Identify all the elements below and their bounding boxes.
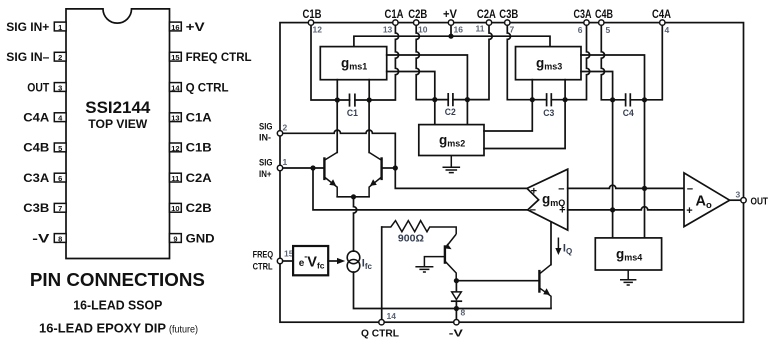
- pin name GND: [186, 231, 215, 245]
- node C1 right dot: [367, 97, 372, 102]
- label C2A: [477, 9, 496, 21]
- node Q3 emitter junction dot: [454, 278, 459, 283]
- capacitor C2: [435, 94, 468, 118]
- wire SIG IN+ to left base: [280, 167, 324, 169]
- wire gms3 bottom stub right: [564, 80, 566, 100]
- +V terminal drop wire: [450, 25, 452, 36]
- svg-text:C2B: C2B: [408, 9, 427, 21]
- svg-text:16: 16: [454, 25, 464, 35]
- svg-text:SIG IN+: SIG IN+: [6, 20, 49, 34]
- pin 6 box: [54, 173, 66, 183]
- pin 15 box: [170, 52, 182, 62]
- svg-text:C1B: C1B: [186, 141, 212, 155]
- wire differential pair tail: [337, 196, 369, 198]
- wire gms3 stub2 to C4 left and down to gms4: [581, 72, 613, 238]
- wire C1 right plate down to Q2 collector: [368, 100, 370, 152]
- svg-text:+V: +V: [186, 20, 205, 34]
- transistor Q2 right of differential pair: [369, 152, 382, 196]
- caption 16-LEAD EPOXY DIP (future): [39, 321, 198, 336]
- pin name SIG IN+: [6, 20, 49, 34]
- wire tail down to current source with hop: [354, 197, 357, 251]
- svg-text:FREQ CTRL: FREQ CTRL: [186, 50, 252, 64]
- svg-text:−: −: [687, 183, 693, 195]
- svg-text:6: 6: [578, 25, 583, 35]
- svg-text:CTRL: CTRL: [253, 262, 273, 273]
- svg-text:SIG: SIG: [259, 158, 273, 169]
- label FREQ CTRL: [253, 249, 274, 272]
- svg-text:16-LEAD SSOP: 16-LEAD SSOP: [73, 298, 162, 313]
- svg-text:PIN CONNECTIONS: PIN CONNECTIONS: [30, 270, 205, 290]
- svg-text:5: 5: [58, 144, 62, 153]
- pin name C3B: [23, 201, 49, 215]
- label C2B: [408, 9, 427, 21]
- node C3 right dot: [563, 97, 568, 102]
- pin name SIG IN-: [6, 50, 49, 64]
- pin name OUT: [27, 80, 50, 94]
- wire Q3 to Q4 base: [456, 280, 538, 282]
- node C4 right dot: [642, 97, 647, 102]
- wire gms1 bottom stub left: [336, 80, 338, 100]
- junction dot +V rail: [448, 34, 453, 39]
- label -V: [449, 329, 463, 340]
- pin 16 box: [170, 22, 182, 32]
- svg-text:7: 7: [510, 25, 515, 35]
- op-amp block gms4: [595, 238, 661, 270]
- wire Q4 emitter to -V node: [456, 308, 551, 310]
- pin 13 box: [170, 113, 182, 123]
- pin 4 box: [54, 113, 66, 123]
- op-amp Ao: [684, 173, 730, 227]
- terminal OUT pin 3: [736, 189, 747, 203]
- svg-text:C3A: C3A: [23, 171, 49, 185]
- wire C2A drop with hop: [467, 25, 492, 99]
- wire C1B to C1 left plate: [311, 25, 337, 100]
- svg-text:C3B: C3B: [23, 201, 49, 215]
- svg-text:+: +: [559, 205, 565, 217]
- wire SIG IN+ branch to gmQ bottom input: [313, 168, 528, 210]
- caption 16-LEAD SSOP: [73, 298, 162, 313]
- wire gmQ bottom output to Ao with hop: [568, 207, 684, 210]
- svg-text:1: 1: [283, 157, 288, 167]
- terminal C4A pin 4: [660, 20, 670, 35]
- svg-text:8: 8: [461, 308, 466, 318]
- svg-text:C2A: C2A: [186, 171, 212, 185]
- transistor Q4 (NPN IQ): [539, 265, 551, 309]
- terminal C3B pin 7: [505, 20, 515, 35]
- pin name C1A: [186, 111, 212, 125]
- svg-text:OUT: OUT: [27, 80, 50, 94]
- label C4A: [652, 9, 671, 21]
- svg-text:SIG: SIG: [259, 122, 273, 133]
- wire Q3 base to ground: [415, 257, 445, 272]
- label C3A: [574, 9, 592, 21]
- svg-text:C4B: C4B: [23, 141, 49, 155]
- svg-text:1: 1: [58, 23, 62, 32]
- pin 3 box: [54, 83, 66, 93]
- svg-text:5: 5: [606, 25, 611, 35]
- terminal C1A pin 13: [383, 20, 398, 35]
- IC label SSI2144: [85, 99, 151, 131]
- resistor R1 900 ohm: [382, 221, 457, 245]
- transistor Q3 (PNP near 900 ohm): [445, 234, 457, 281]
- svg-text:16: 16: [171, 23, 179, 32]
- terminal C1B pin 12: [308, 20, 322, 35]
- svg-text:FREQ: FREQ: [253, 249, 274, 260]
- svg-text:C4B: C4B: [595, 9, 613, 21]
- wire Q2 base to SIG IN- vertical: [382, 167, 396, 169]
- current source Ifc: [347, 251, 372, 272]
- pin 7 box: [54, 203, 66, 213]
- pin 8 box: [54, 234, 66, 244]
- svg-text:2: 2: [58, 53, 62, 62]
- wire gms3 stub1 to C4 right and down to gms4: [581, 55, 645, 238]
- transistor Q1 left of differential pair: [324, 152, 337, 196]
- terminal C2B pin 10: [414, 20, 428, 35]
- label C1A: [385, 9, 404, 21]
- chip outline border: [280, 23, 744, 323]
- svg-text:Q CTRL: Q CTRL: [361, 329, 399, 340]
- svg-text:11: 11: [171, 174, 179, 183]
- svg-text:GND: GND: [186, 231, 215, 245]
- pin name -V: [32, 231, 49, 245]
- arrow e-Vfc to current source: [328, 258, 345, 264]
- wire gms1 output stub 2 to C2 left: [387, 72, 435, 125]
- pin 10 box: [170, 203, 182, 213]
- pin 9 box: [170, 234, 182, 244]
- terminal Q CTRL pin 14: [379, 311, 396, 325]
- svg-text:3: 3: [736, 189, 741, 199]
- svg-text:10: 10: [418, 25, 428, 35]
- svg-text:OUT: OUT: [751, 196, 769, 208]
- node SIG IN+ base dot: [310, 165, 315, 170]
- pin 5 box: [54, 143, 66, 153]
- terminal C4B pin 5: [599, 20, 611, 35]
- wire gms2 right stub upper to C3 left: [484, 100, 532, 131]
- pin 12 box: [170, 143, 182, 153]
- ground below gms2: [443, 156, 461, 173]
- svg-text:C4A: C4A: [23, 111, 49, 125]
- terminal C3A pin 6: [578, 20, 589, 35]
- caption PIN CONNECTIONS: [30, 270, 205, 290]
- +V rail wire from gms1 top to gms3 top: [354, 36, 550, 46]
- svg-text:13: 13: [383, 25, 393, 35]
- svg-text:−: −: [530, 204, 536, 216]
- svg-text:2: 2: [283, 123, 288, 133]
- svg-text:7: 7: [58, 204, 62, 213]
- svg-text:+: +: [686, 205, 692, 217]
- svg-text:12: 12: [313, 25, 323, 35]
- op-amp block gms1: [320, 47, 386, 80]
- label SIG IN-: [259, 122, 273, 144]
- svg-text:C1B: C1B: [303, 9, 322, 21]
- IC body U1 SSI2144 with notch: [66, 9, 170, 259]
- wire C4B drop with hops: [601, 25, 612, 100]
- pin 1 box: [54, 22, 66, 32]
- svg-text:14: 14: [387, 311, 397, 321]
- node dot bottom line x 612.6: [610, 207, 615, 212]
- terminal SIG IN- pin 2: [277, 123, 287, 137]
- node C2 right dot: [465, 97, 470, 102]
- wire C1 left plate down to Q1 collector: [336, 100, 338, 152]
- svg-text:TOP VIEW: TOP VIEW: [88, 117, 148, 131]
- svg-text:(future): (future): [169, 324, 198, 336]
- arrow IQ: [555, 238, 572, 256]
- svg-text:12: 12: [171, 144, 179, 153]
- pin name C1B: [186, 141, 212, 155]
- svg-text:8: 8: [58, 234, 62, 243]
- op-amp block gms2: [419, 125, 484, 156]
- svg-text:+: +: [531, 186, 537, 198]
- op-amp block gms3: [516, 47, 582, 80]
- wire gms1 bottom stub right: [368, 80, 370, 100]
- node diode bottom dot: [454, 306, 459, 311]
- wire gms2 right stub lower to C3 right: [484, 100, 565, 149]
- pin 2 box: [54, 52, 66, 62]
- pin name C3A: [23, 171, 49, 185]
- diode D1: [452, 281, 462, 323]
- svg-text:SIG IN–: SIG IN–: [6, 50, 49, 64]
- svg-text:Q CTRL: Q CTRL: [186, 80, 229, 94]
- pin 14 box: [170, 83, 182, 93]
- svg-text:10: 10: [171, 204, 179, 213]
- svg-text:C3: C3: [543, 108, 554, 119]
- wire gmQ top output to Ao with hop: [568, 185, 684, 188]
- pin name C2A: [186, 171, 212, 185]
- svg-text:3: 3: [58, 83, 62, 92]
- pin name C4A: [23, 111, 49, 125]
- svg-text:IN+: IN+: [259, 169, 272, 180]
- capacitor C4: [613, 94, 645, 119]
- label C3B: [499, 9, 518, 21]
- wire Q CTRL vertical to resistor: [381, 227, 383, 322]
- pin name Q CTRL: [186, 80, 229, 94]
- node C3 left dot: [530, 97, 535, 102]
- svg-text:C2A: C2A: [477, 9, 496, 21]
- svg-text:14: 14: [171, 83, 180, 92]
- svg-text:IN-: IN-: [259, 133, 271, 144]
- svg-text:C1: C1: [347, 108, 359, 119]
- svg-text:C3B: C3B: [499, 9, 518, 21]
- capacitor C3: [532, 94, 565, 119]
- svg-text:C1A: C1A: [186, 111, 212, 125]
- label C1B: [303, 9, 322, 21]
- op-amp gmQ: [527, 169, 568, 230]
- wire Q4 collector up to gmQ (IQ): [550, 222, 552, 265]
- wire current source bottom to -V node: [354, 272, 457, 308]
- label SIG IN+: [259, 158, 273, 180]
- wire C2B drop with hops: [416, 25, 435, 99]
- node C2 left dot: [432, 97, 437, 102]
- label Q CTRL: [361, 329, 399, 340]
- pin 11 box: [170, 173, 182, 183]
- svg-text:6: 6: [58, 174, 62, 183]
- node dot top line x 644.5: [642, 186, 647, 191]
- pin name C4B: [23, 141, 49, 155]
- wire C1A drop with hops: [369, 25, 398, 100]
- svg-text:-V: -V: [32, 231, 49, 245]
- svg-text:C2B: C2B: [186, 201, 212, 215]
- svg-text:SSI2144: SSI2144: [85, 99, 151, 117]
- node C4 left dot: [610, 97, 615, 102]
- wire FREQ CTRL to e-Vfc box: [283, 260, 293, 262]
- label +V: [443, 9, 457, 21]
- block e-Vfc exponentiator: [293, 246, 328, 275]
- terminal SIG IN+ pin 1: [277, 157, 287, 171]
- pin name C2B: [186, 201, 212, 215]
- wire SIG IN- to gmQ top input: [280, 130, 527, 188]
- node right base dot: [393, 165, 398, 170]
- wire C4A drop: [645, 25, 663, 100]
- svg-text:C4A: C4A: [652, 9, 671, 21]
- svg-text:C4: C4: [623, 108, 635, 119]
- label C4B: [595, 9, 613, 21]
- wire Ao output to OUT: [730, 199, 744, 201]
- pin name +V: [186, 20, 205, 34]
- svg-text:−: −: [558, 183, 564, 195]
- svg-text:+V: +V: [443, 9, 457, 21]
- terminal C2A pin 11: [476, 20, 492, 34]
- svg-text:4: 4: [665, 25, 670, 35]
- terminal +V pin 16: [448, 20, 463, 35]
- svg-text:900Ω: 900Ω: [398, 234, 424, 245]
- svg-text:13: 13: [171, 114, 179, 123]
- pin name FREQ CTRL: [186, 50, 252, 64]
- svg-text:C3A: C3A: [574, 9, 592, 21]
- wire gms3 bottom stub left: [531, 80, 533, 100]
- svg-text:16-LEAD EPOXY DIP: 16-LEAD EPOXY DIP: [39, 321, 166, 336]
- terminal FREQ CTRL pin 15: [277, 249, 293, 264]
- wire C3A drop with hops: [565, 25, 590, 99]
- svg-text:11: 11: [476, 24, 485, 34]
- label OUT: [751, 196, 769, 208]
- wire C3B drop with hop: [507, 25, 532, 99]
- ground below gms4: [620, 270, 636, 285]
- node tail dot: [351, 194, 356, 199]
- svg-text:9: 9: [173, 234, 177, 243]
- svg-text:C2: C2: [445, 107, 456, 118]
- wire gms1 output stub 1 to C2 right: [387, 55, 468, 125]
- svg-text:15: 15: [171, 53, 179, 62]
- capacitor C1: [337, 94, 369, 119]
- svg-text:C1A: C1A: [385, 9, 404, 21]
- node C1 left dot: [335, 97, 340, 102]
- svg-text:-V: -V: [449, 329, 463, 340]
- terminal -V pin 8: [454, 308, 466, 325]
